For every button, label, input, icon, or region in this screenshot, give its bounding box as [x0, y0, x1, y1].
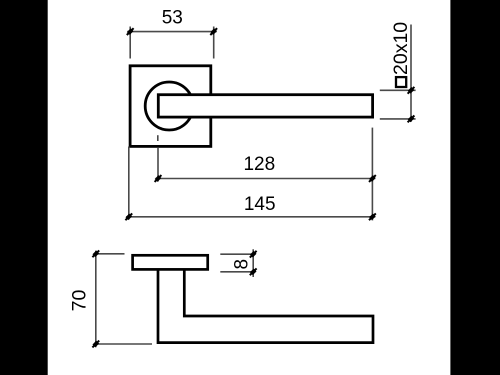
- rosette circle: [145, 82, 193, 130]
- dimension 128: arrow tick right: [369, 175, 376, 182]
- svg-text:70: 70: [69, 290, 91, 312]
- dimension 20x10: extension line top: [380, 89, 416, 91]
- dimension 128: dimension line: [156, 178, 376, 180]
- svg-text:8: 8: [232, 259, 253, 270]
- dimension 8: dimension line: [252, 249, 254, 277]
- handle profile (side): [158, 269, 373, 342]
- dimension 20x10: dimension line: [410, 25, 412, 122]
- dimension 128: extension line left: [157, 148, 159, 182]
- dimension 8: arrow tick top: [250, 251, 257, 258]
- dimension 53: arrow tick left: [127, 28, 134, 35]
- dimension 145: arrow tick left: [125, 213, 132, 220]
- dimension 70: extension line bottom: [94, 343, 152, 345]
- svg-text:20x10: 20x10: [390, 22, 412, 75]
- dimension 20x10: extension line bottom: [380, 118, 416, 120]
- dimension 20x10: arrow tick bottom: [408, 116, 415, 123]
- lever bar (top view): [158, 95, 372, 117]
- dimension 70: extension line top: [94, 253, 125, 255]
- svg-text:128: 128: [243, 154, 275, 175]
- dimension 70: dimension line: [95, 251, 97, 348]
- centerline dash below circle: [157, 135, 159, 141]
- dimension 70: arrow tick bottom: [92, 341, 99, 348]
- dimension 145: extension line left: [128, 147, 130, 220]
- dimension 145: arrow tick right: [369, 213, 376, 220]
- dimension 145: dimension line: [126, 216, 375, 218]
- dimension 8: extension line top: [220, 253, 255, 255]
- dimension 8: arrow tick bottom: [250, 268, 257, 275]
- dimension 8: extension line bottom: [220, 271, 255, 273]
- extension line from bar end (shared 128/145): [371, 128, 373, 221]
- dimension 53: extension line right: [213, 27, 215, 59]
- svg-text:145: 145: [244, 194, 276, 215]
- rosette plate (side): [133, 255, 208, 269]
- dimension 20x10: arrow tick top: [408, 87, 415, 94]
- dimension 53: extension line left: [129, 27, 131, 59]
- dimension 53: dimension line: [127, 31, 216, 33]
- dimension 53: arrow tick right: [210, 28, 217, 35]
- svg-text:53: 53: [162, 8, 183, 29]
- dimension 128: arrow tick left: [155, 175, 162, 182]
- dimension 20x10: square symbol: [396, 77, 406, 87]
- dimension 70: arrow tick top: [92, 250, 99, 257]
- rosette square: [130, 66, 211, 147]
